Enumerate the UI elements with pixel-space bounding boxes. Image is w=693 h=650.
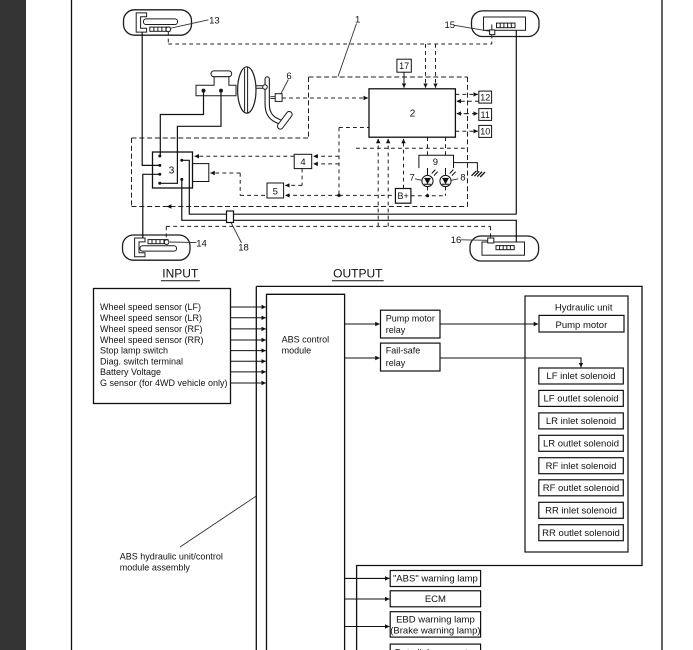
svg-text:5: 5 xyxy=(273,186,278,197)
svg-text:relay: relay xyxy=(386,358,406,368)
svg-text:7: 7 xyxy=(410,172,415,183)
svg-text:Hydraulic unit: Hydraulic unit xyxy=(555,303,613,314)
svg-text:ABS hydraulic unit/control: ABS hydraulic unit/control xyxy=(120,552,223,562)
svg-text:Battery Voltage: Battery Voltage xyxy=(100,367,161,377)
svg-text:16: 16 xyxy=(451,235,462,246)
svg-text:18: 18 xyxy=(238,242,249,253)
svg-text:4: 4 xyxy=(300,157,305,168)
svg-text:B+: B+ xyxy=(397,191,408,201)
svg-text:RR inlet solenoid: RR inlet solenoid xyxy=(545,505,617,516)
svg-text:17: 17 xyxy=(399,61,409,71)
svg-text:EBD warning lamp: EBD warning lamp xyxy=(396,614,475,625)
svg-text:OUTPUT: OUTPUT xyxy=(333,267,383,281)
svg-text:RF outlet solenoid: RF outlet solenoid xyxy=(543,483,620,494)
svg-text:Wheel speed sensor (RF): Wheel speed sensor (RF) xyxy=(100,324,203,334)
svg-text:10: 10 xyxy=(480,127,490,137)
svg-text:LR outlet solenoid: LR outlet solenoid xyxy=(543,438,619,449)
svg-text:relay: relay xyxy=(386,325,406,335)
svg-text:LF outlet solenoid: LF outlet solenoid xyxy=(544,394,619,405)
svg-text:2: 2 xyxy=(410,109,416,120)
svg-text:G sensor (for 4WD vehicle only: G sensor (for 4WD vehicle only) xyxy=(100,378,228,388)
svg-text:3: 3 xyxy=(169,166,175,177)
svg-text:Wheel speed sensor (LF): Wheel speed sensor (LF) xyxy=(100,302,201,312)
svg-text:12: 12 xyxy=(480,92,490,102)
svg-text:13: 13 xyxy=(209,16,220,27)
svg-text:"ABS" warning lamp: "ABS" warning lamp xyxy=(393,574,478,585)
svg-text:9: 9 xyxy=(433,157,438,168)
svg-text:14: 14 xyxy=(196,239,207,250)
svg-text:LF inlet solenoid: LF inlet solenoid xyxy=(546,371,615,382)
svg-text:Stop lamp switch: Stop lamp switch xyxy=(100,346,168,356)
svg-text:11: 11 xyxy=(481,110,490,120)
svg-text:Wheel speed sensor (RR): Wheel speed sensor (RR) xyxy=(100,335,204,345)
svg-text:ECM: ECM xyxy=(425,594,446,605)
svg-text:Diag. switch terminal: Diag. switch terminal xyxy=(100,356,183,366)
svg-text:Wheel speed sensor (LR): Wheel speed sensor (LR) xyxy=(100,313,202,323)
svg-text:LR inlet solenoid: LR inlet solenoid xyxy=(546,416,616,427)
svg-text:(Brake warning lamp): (Brake warning lamp) xyxy=(390,626,480,637)
svg-text:RF inlet solenoid: RF inlet solenoid xyxy=(546,461,617,472)
svg-text:RR outlet solenoid: RR outlet solenoid xyxy=(542,528,620,539)
svg-text:Pump motor: Pump motor xyxy=(556,320,608,331)
svg-text:module assembly: module assembly xyxy=(120,563,191,573)
svg-text:6: 6 xyxy=(286,71,291,82)
svg-text:Pump motor: Pump motor xyxy=(386,313,435,323)
svg-text:1: 1 xyxy=(355,14,360,25)
svg-text:INPUT: INPUT xyxy=(162,267,199,281)
svg-text:ABS control: ABS control xyxy=(282,335,330,345)
svg-text:Fail-safe: Fail-safe xyxy=(386,346,421,356)
svg-text:8: 8 xyxy=(460,172,465,183)
svg-text:15: 15 xyxy=(445,20,456,31)
svg-text:module: module xyxy=(282,346,312,356)
